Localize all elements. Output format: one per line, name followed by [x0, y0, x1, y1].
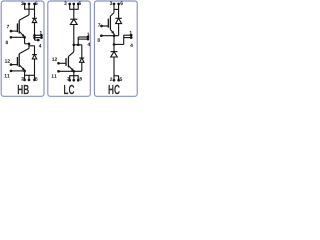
label 5 [35, 77, 37, 80]
terminal pin 2 (DC-) [23, 79, 26, 82]
label 2 LC [67, 77, 69, 80]
T2 collector slant [19, 48, 29, 53]
diode D1 (cathode up) [32, 18, 37, 22]
diode D1 LC (cathode up) [70, 19, 77, 24]
diode D2 (cathode up) [32, 55, 37, 59]
pins connector HC [123, 35, 125, 44]
label 8 [6, 41, 8, 44]
junction D1/pin1 [33, 34, 36, 37]
diode D2 LC cathode lead [81, 45, 83, 58]
T2 collector lead LC [73, 45, 75, 52]
pin 2 stub LC [69, 76, 71, 81]
terminal pin 8 [10, 36, 13, 39]
diode D2 HC cathode lead [113, 44, 115, 51]
label 2 [21, 77, 23, 80]
terminal pin 6 HC [117, 3, 120, 6]
label 4 HC [130, 44, 133, 47]
DC- rail HC [114, 75, 119, 77]
junction pins connector LC [77, 43, 80, 46]
label 4 [39, 44, 42, 47]
terminal pin 3 LC [68, 3, 71, 6]
label 6 HC [120, 1, 122, 4]
T2 collector slant LC [68, 52, 73, 57]
label 3 [21, 2, 23, 5]
T emitter slant LC (arrow) [68, 66, 73, 71]
label 6 [35, 2, 37, 5]
label 3 LC [64, 1, 66, 4]
pins connector LC [77, 37, 79, 45]
T2 gate wire pin 12 [11, 64, 17, 66]
top mid stub LC [73, 4, 75, 9]
caption LC [64, 85, 68, 94]
label 7 HC [98, 23, 100, 26]
terminal pin 1 LC [87, 36, 90, 39]
pin 8 wire (E1 aux) [11, 36, 25, 38]
D2 branch wire [29, 45, 35, 47]
gate wire pin 12 LC [59, 62, 67, 64]
terminal pin 7 (G1) [10, 30, 13, 33]
T2 emitter slant (arrow) [19, 65, 24, 71]
label 1 [40, 31, 42, 34]
diode D2 LC (cathode up) [79, 58, 84, 62]
diode D1 anode lead [34, 23, 36, 40]
pin 1 stub HC [124, 34, 132, 36]
AC mid stub [35, 39, 39, 41]
pin 2 stub [24, 75, 26, 80]
diode D1 LC cathode lead [73, 9, 75, 19]
emitter rail LC [73, 71, 75, 75]
terminal pin 7 HC [100, 25, 103, 28]
transistor T1 (IGBT) [17, 20, 19, 33]
T emitter slant HC (arrow) [110, 30, 114, 34]
junction emitter/pin8 HC [113, 34, 116, 37]
pin 2 stub HC [113, 76, 115, 80]
T2 emitter rail [24, 70, 26, 75]
pin 5 stub HC [118, 76, 120, 80]
terminal bottom mid [28, 79, 31, 82]
terminal pin 11 LC [57, 70, 60, 73]
label 2 HC [110, 77, 112, 80]
terminal pin 4 LC [87, 38, 90, 41]
pin 3 stub LC [69, 4, 71, 9]
terminal pin 8 HC [100, 34, 103, 37]
transistor T2 (IGBT) [17, 54, 19, 67]
HC panel frame [94, 1, 137, 96]
T1 emitter slant (arrow) [19, 31, 24, 37]
transistor T HC (IGBT) [108, 16, 110, 29]
label 11 LC [52, 74, 54, 77]
diode D2 HC anode lead [113, 57, 115, 76]
terminal pin 1 (AC) [40, 34, 43, 37]
caption HC [109, 85, 114, 94]
label 4 LC [88, 43, 91, 46]
pin 3 stub HC [113, 4, 115, 9]
label 11 [5, 74, 7, 77]
terminal pin 2 HC [113, 79, 116, 82]
diode D2 LC anode lead [81, 62, 83, 71]
junction T2 emitter/pin11 [23, 70, 26, 73]
DC- rail [24, 74, 35, 76]
node wire HC [114, 43, 124, 45]
terminal pin 4 HC [130, 36, 133, 39]
label 1 HC [130, 31, 132, 34]
gate wire pin 7 HC [102, 25, 109, 27]
pin 8 wire HC [101, 35, 118, 37]
diode D1 HC cathode lead [118, 9, 120, 18]
junction T1 emitter/pin8 [23, 36, 26, 39]
T1 collector slant HC [110, 13, 114, 17]
DC- rail LC [69, 75, 78, 77]
label 5 HC [120, 78, 122, 81]
diode D1 LC anode lead [73, 25, 75, 45]
diode D2 anode lead [34, 59, 36, 75]
label 8 HC [97, 38, 99, 41]
terminal pin 11 [10, 70, 13, 73]
label 12 [5, 59, 7, 62]
pin 4 stub HC [124, 37, 132, 39]
pin 5 stub [34, 75, 36, 80]
label 6 LC [79, 1, 81, 4]
phase node wire [25, 43, 29, 45]
T1 collector slant [19, 15, 29, 20]
terminal pin 3 (DC+) [23, 3, 26, 6]
bottom mid stub [28, 75, 30, 80]
label 5 LC [80, 77, 82, 80]
pin 4 stub [35, 37, 42, 39]
label 12 LC [52, 58, 54, 61]
terminal pin 6 (DC+) [33, 3, 36, 6]
label 3 HC [110, 1, 112, 4]
pin 6 stub LC [77, 4, 79, 9]
pin 11 wire LC [59, 70, 82, 72]
pin 6 stub HC [118, 4, 120, 9]
diode D2 cathode lead [34, 46, 36, 55]
HB panel frame [1, 1, 44, 96]
terminal pin 3 HC [113, 3, 116, 6]
DC+ rail LC [69, 8, 78, 10]
label 7 [7, 25, 9, 28]
node wire LC [74, 44, 82, 46]
terminal bottom mid LC [72, 79, 75, 82]
T1 emitter rail [24, 37, 26, 44]
diode D1 HC (cathode up) [115, 18, 121, 23]
DC+ rail [24, 8, 35, 10]
terminal pin 2 LC [68, 79, 71, 82]
top mid stub [28, 4, 30, 9]
terminal pin 1 HC [130, 34, 133, 37]
pin 6 stub [34, 4, 36, 9]
terminal pin 6 LC [77, 3, 80, 6]
T1 collector lead HC [113, 9, 115, 12]
pin 1 stub [35, 34, 42, 36]
LC panel frame [48, 1, 91, 96]
DC+ rail HC [114, 8, 119, 10]
T1 collector lead [28, 9, 30, 15]
junction node HC [113, 43, 116, 46]
label 1 LC [87, 33, 89, 36]
pin 4 stub LC [78, 38, 88, 40]
terminal pin 12 (G2) [10, 63, 13, 66]
transistor T LC (IGBT) [66, 57, 68, 68]
terminal pin 5 LC [77, 79, 80, 82]
junction node LC [72, 43, 75, 46]
T2 collector lead [28, 44, 30, 49]
diode D1 cathode lead [34, 9, 36, 18]
diode D2 HC (cathode up) [111, 52, 118, 57]
terminal AC mid [37, 39, 40, 42]
junction phase/T2 collector [28, 42, 31, 45]
terminal pin 5 HC [117, 79, 120, 82]
pin 1 stub LC [78, 36, 88, 38]
T1 gate wire pin 7 [11, 30, 17, 32]
emitter rail HC [113, 34, 115, 45]
terminal top mid (DC+) [28, 3, 31, 6]
junction emitter/pin11 LC [72, 70, 75, 73]
diode D1 HC anode lead [118, 24, 120, 36]
pin 11 wire (E2 aux) [11, 70, 25, 72]
pin 3 stub [24, 4, 26, 9]
pin 5 stub LC [77, 76, 79, 81]
bottom mid stub LC [73, 76, 75, 81]
junction D1/pin4 [33, 36, 36, 39]
terminal pin 4 (AC) [40, 36, 43, 39]
terminal pin 12 LC [57, 62, 60, 65]
terminal pin 5 (DC-) [33, 79, 36, 82]
caption HB [18, 85, 23, 94]
terminal top mid LC [72, 3, 75, 6]
